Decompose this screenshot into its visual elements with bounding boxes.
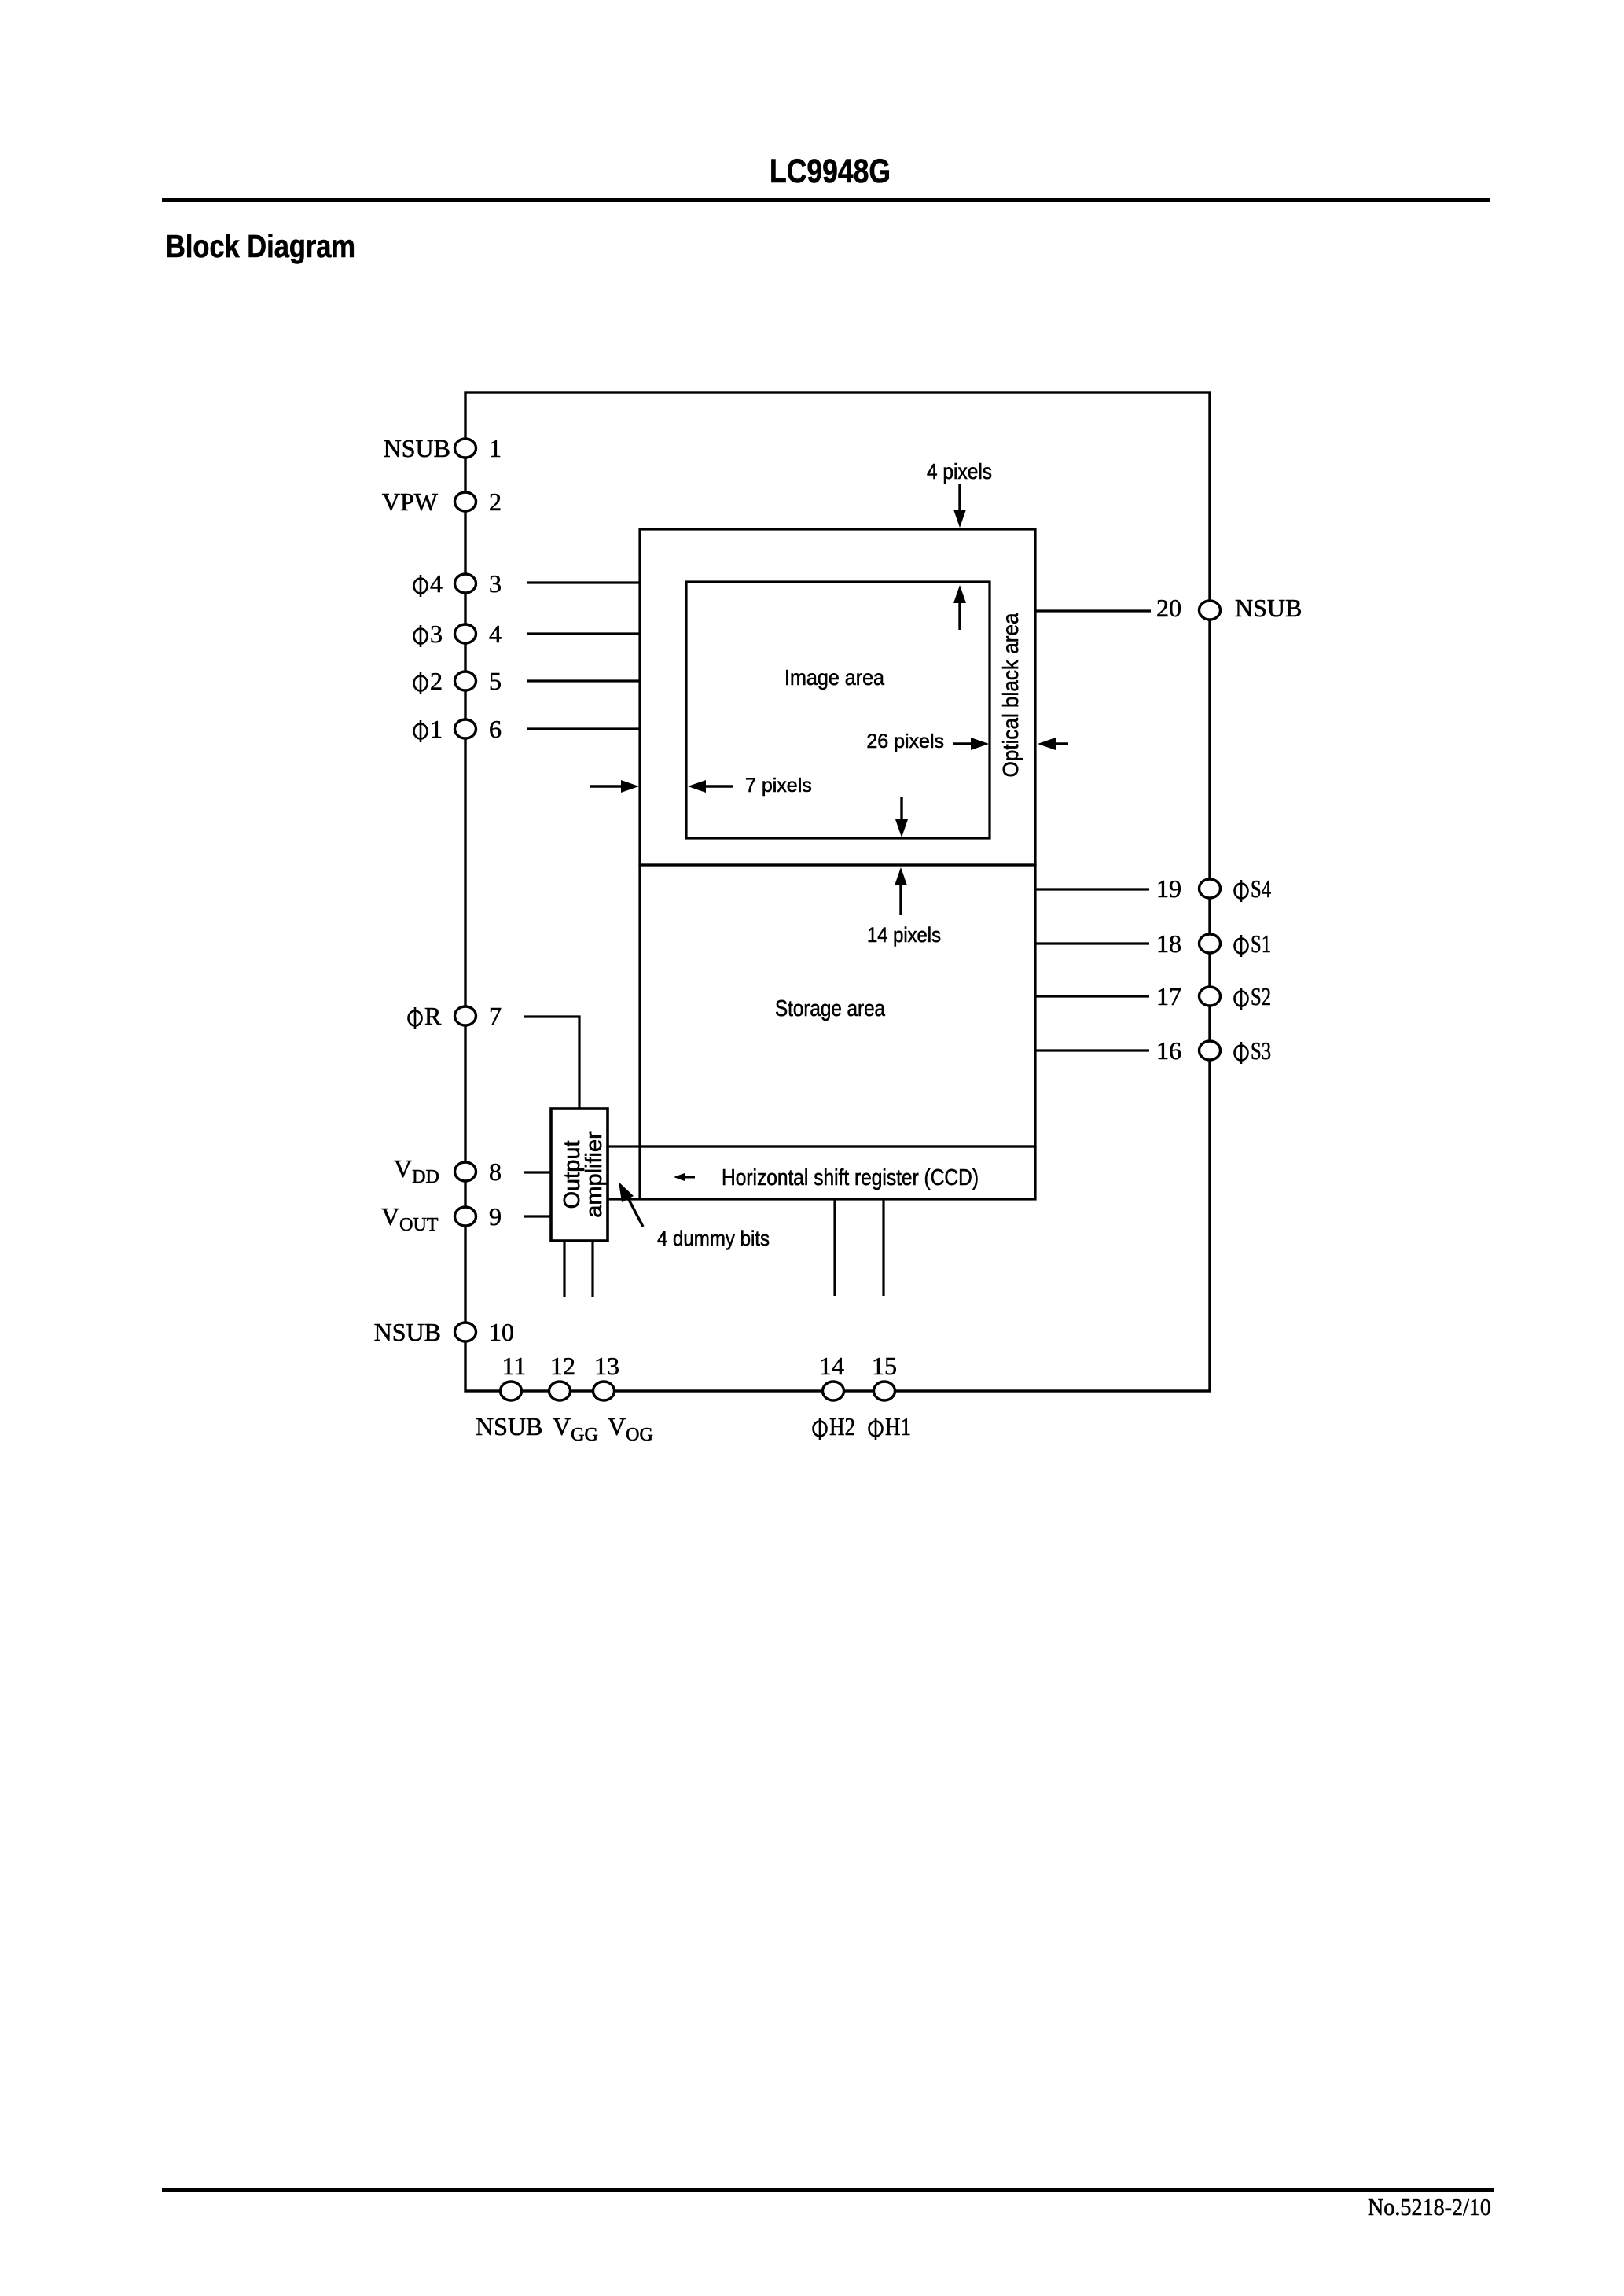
pin 17 label phiS2: [1235, 982, 1272, 1010]
svg-text:4 dummy bits: 4 dummy bits: [657, 1227, 770, 1250]
svg-text:H2: H2: [829, 1412, 855, 1441]
svg-text:Optical black area: Optical black area: [998, 613, 1023, 777]
svg-text:5: 5: [489, 667, 502, 695]
wire pin18: [1035, 942, 1149, 944]
pin 5 label phi2: [414, 667, 443, 695]
arrow 4 pixels down: [958, 484, 961, 513]
svg-text:NSUB: NSUB: [384, 434, 450, 462]
pin 9: [455, 1207, 476, 1226]
svg-text:LC9948G: LC9948G: [770, 153, 891, 190]
svg-text:S2: S2: [1251, 982, 1271, 1010]
pin 2: [455, 492, 476, 511]
pin 4 label phi3: [414, 620, 443, 648]
pin 3: [455, 574, 476, 593]
svg-text:NSUB: NSUB: [374, 1318, 441, 1346]
pin 6: [455, 719, 476, 738]
svg-text:7 pixels: 7 pixels: [745, 775, 812, 797]
svg-text:12: 12: [550, 1352, 575, 1380]
svg-text:1: 1: [430, 715, 443, 743]
wire pin3: [527, 581, 640, 583]
wire pin20: [1035, 609, 1151, 612]
pin 11: [501, 1382, 522, 1400]
wire pin7: [524, 1017, 579, 1109]
svg-text:10: 10: [489, 1318, 514, 1346]
pin 20: [1200, 601, 1221, 620]
pin 6 label phi1: [414, 715, 443, 743]
svg-text:No.5218-2/10: No.5218-2/10: [1368, 2193, 1491, 2221]
wire below shift register phiH2: [833, 1199, 836, 1296]
pin 19: [1200, 879, 1221, 898]
arrow in shift register: [683, 1176, 695, 1179]
image area box: [686, 582, 990, 838]
svg-text:S1: S1: [1251, 929, 1271, 958]
svg-text:16: 16: [1156, 1036, 1181, 1065]
storage area box: [640, 865, 1035, 1146]
arrow 7 pixels left: [703, 785, 733, 787]
svg-text:14: 14: [819, 1352, 844, 1380]
svg-text:1: 1: [489, 434, 502, 462]
wire below output amplifier right: [591, 1241, 593, 1297]
pin 15: [874, 1382, 895, 1400]
svg-text:NSUB: NSUB: [1235, 594, 1302, 622]
svg-text:20: 20: [1156, 594, 1181, 622]
wire pin4: [527, 632, 640, 635]
pin 13: [593, 1382, 615, 1400]
svg-text:8: 8: [489, 1157, 502, 1186]
svg-text:S3: S3: [1251, 1036, 1271, 1065]
wire below shift register phiH1: [882, 1199, 884, 1296]
arrow 26 pixels right: [953, 742, 975, 745]
output amplifier U1: [551, 1109, 608, 1241]
header rule: [162, 198, 1490, 202]
wire pin17: [1035, 995, 1149, 997]
pin 16 label phiS3: [1235, 1036, 1272, 1065]
pin 7: [455, 1006, 476, 1025]
svg-text:VPW: VPW: [382, 488, 439, 516]
footer rule: [162, 2188, 1494, 2192]
pin 16: [1200, 1041, 1221, 1060]
pin 12: [549, 1382, 571, 1400]
svg-text:2: 2: [430, 667, 443, 695]
pin 14: [823, 1382, 844, 1400]
svg-text:S4: S4: [1251, 874, 1271, 903]
arrow left of image area right: [590, 785, 624, 787]
arrow bottom inside image area down: [900, 797, 902, 822]
svg-text:9: 9: [489, 1202, 502, 1231]
svg-text:3: 3: [489, 569, 502, 598]
pin 4: [455, 624, 476, 643]
svg-text:R: R: [424, 1002, 442, 1030]
svg-text:26 pixels: 26 pixels: [866, 730, 944, 752]
wire pin9: [524, 1215, 551, 1217]
pin 19 label phiS4: [1235, 874, 1272, 903]
svg-text:4 pixels: 4 pixels: [927, 459, 992, 484]
wire below output amplifier left: [563, 1241, 565, 1297]
pin 5: [455, 672, 476, 690]
svg-text:18: 18: [1156, 929, 1181, 958]
svg-text:14 pixels: 14 pixels: [867, 923, 941, 947]
svg-text:11: 11: [502, 1352, 527, 1380]
svg-text:17: 17: [1156, 982, 1181, 1010]
arrow top inside image area up: [958, 599, 961, 630]
pin 8: [455, 1162, 476, 1181]
horizontal shift register box: [608, 1146, 1035, 1199]
arrow 14 pixels up: [899, 882, 902, 915]
svg-text:Block Diagram: Block Diagram: [166, 228, 355, 264]
svg-text:3: 3: [430, 620, 443, 648]
svg-text:NSUB: NSUB: [476, 1412, 542, 1441]
pin 18: [1200, 934, 1221, 953]
arrow 4 dummy bits: [626, 1195, 643, 1227]
svg-text:15: 15: [872, 1352, 897, 1380]
wire pin6: [527, 727, 640, 730]
wire pin16: [1035, 1049, 1149, 1051]
svg-text:13: 13: [594, 1352, 619, 1380]
arrow right of optical black left: [1054, 742, 1068, 745]
pin 15 label phiH1: [869, 1412, 912, 1441]
chip outline: [465, 392, 1210, 1391]
svg-text:4: 4: [489, 620, 502, 648]
svg-text:Horizontal shift register (CCD: Horizontal shift register (CCD): [722, 1165, 979, 1190]
svg-text:Image area: Image area: [784, 665, 884, 690]
pin 1: [455, 439, 476, 458]
pin 7 label phiR: [409, 1002, 443, 1030]
svg-text:2: 2: [489, 488, 502, 516]
svg-text:H1: H1: [885, 1412, 911, 1441]
pin 3 label phi4: [414, 569, 443, 598]
svg-text:7: 7: [489, 1002, 502, 1030]
svg-text:amplifier: amplifier: [582, 1131, 607, 1218]
pin 18 label phiS1: [1235, 929, 1272, 958]
wire pin19: [1035, 888, 1149, 890]
svg-text:6: 6: [489, 715, 502, 743]
pin 10: [455, 1323, 476, 1341]
svg-text:Storage area: Storage area: [775, 996, 886, 1021]
wire pin5: [527, 679, 640, 682]
optical black area box: [640, 529, 1035, 865]
wire pin8: [524, 1171, 551, 1173]
pin 14 label phiH2: [814, 1412, 856, 1441]
svg-text:19: 19: [1156, 874, 1181, 903]
pin 17: [1200, 987, 1221, 1006]
wire storage left edge through shift register: [638, 1146, 641, 1199]
svg-text:4: 4: [430, 569, 443, 598]
